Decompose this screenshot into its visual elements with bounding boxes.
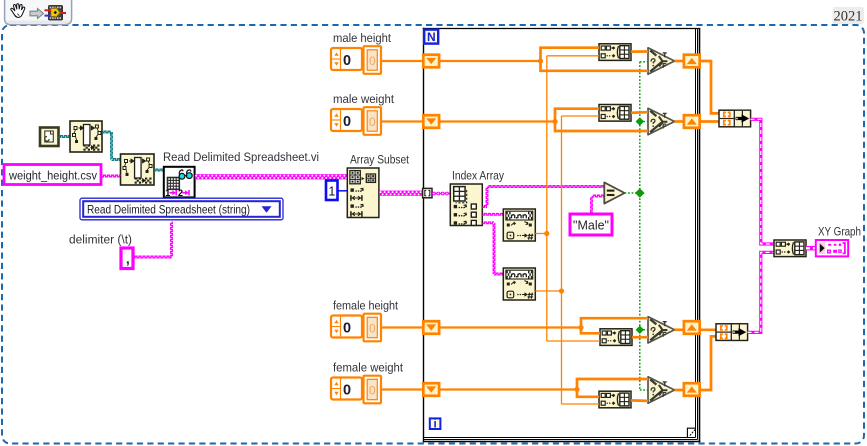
wire Build Array male height to Select true input xyxy=(631,50,648,53)
wire Select male weight output to right shift register xyxy=(675,120,685,123)
wire female weight shift register to junction xyxy=(439,388,577,390)
wire Male constant to equals node xyxy=(591,196,593,214)
wire constant 1 to Array Subset xyxy=(338,190,348,192)
string constant Male xyxy=(570,214,612,235)
boolean junction diamond at select female height xyxy=(636,326,644,334)
wire path node 1 to path node 2 xyxy=(102,131,112,133)
svg-text:"Male": "Male" xyxy=(573,219,609,233)
wire string-to-number 1 output to height distribution xyxy=(535,233,547,235)
wire csv name to path node 2 xyxy=(102,175,121,177)
svg-text:0: 0 xyxy=(369,383,376,397)
wire Build Array female weight to Select false input xyxy=(631,399,648,402)
numeric control male height terminal frame xyxy=(364,46,382,74)
boolean junction diamond at equals output xyxy=(635,188,645,198)
wire female weight array to Build Array input xyxy=(577,390,599,397)
toolbar step arrow icon xyxy=(30,9,44,19)
1D string array wire tunnel to Index Array xyxy=(432,193,451,195)
wire male weight shift register to junction xyxy=(439,120,555,122)
LabVIEW version tag 2021 xyxy=(833,7,865,24)
svg-text:i: i xyxy=(433,419,436,431)
string wire Index Array row 1 to string-to-number 1 xyxy=(482,214,503,216)
numeric control female height terminal frame xyxy=(364,314,382,342)
VI reference constant icon xyxy=(40,128,59,147)
auto-indexing tunnel on loop border xyxy=(423,188,432,197)
wire female weight control to left shift register xyxy=(381,388,423,390)
XY Graph indicator terminal xyxy=(816,240,848,256)
for loop left border xyxy=(423,28,425,443)
right shift register terminal (male weight) xyxy=(684,115,700,128)
left shift register terminal (male height) xyxy=(423,55,439,68)
string constant delimiter comma xyxy=(121,248,133,269)
2D string array wire Array Subset to loop tunnel xyxy=(379,191,423,196)
string wire Index Array row 2 to string-to-number 2 xyxy=(482,222,494,224)
height scalar vertical distribution wire xyxy=(546,56,548,341)
Select node (male height) xyxy=(648,48,675,74)
svg-text:male height: male height xyxy=(333,31,392,45)
boolean junction diamond at select male weight xyxy=(636,117,644,125)
plot array wire to XY Graph terminal xyxy=(806,246,816,250)
boolean stub to select female height xyxy=(640,329,650,331)
wire Build Array male weight to Select true input xyxy=(631,111,648,114)
path node 2 (build path) xyxy=(121,154,155,185)
wire male weight array to Build Array input xyxy=(555,109,599,122)
wire delimiter to spreadsheet VI xyxy=(133,256,172,258)
svg-text:0: 0 xyxy=(343,383,351,399)
string wire Index Array row 0 to equals node xyxy=(482,206,487,208)
wire weight scalar to Build Array male xyxy=(562,115,600,117)
svg-text:Array Subset: Array Subset xyxy=(350,153,409,167)
svg-text:2021: 2021 xyxy=(834,9,863,25)
wire Select male height output to right shift register xyxy=(675,60,685,63)
for loop resize corner fold xyxy=(688,429,695,437)
wire female weight result to Bundle xyxy=(700,336,716,390)
toolbar VI film icon xyxy=(49,6,63,21)
svg-text:Read Delimited Spreadsheet.vi: Read Delimited Spreadsheet.vi xyxy=(163,150,319,164)
wire female height result to Bundle xyxy=(700,328,716,331)
wire path node 2 to Read Delimited Spreadsheet.vi xyxy=(154,169,164,171)
Build Array node (XY plots) xyxy=(774,240,806,257)
wire Select female weight output to right shift register xyxy=(675,389,685,392)
numeric control female height icon terminal xyxy=(331,316,362,338)
svg-text:delimiter (\t): delimiter (\t) xyxy=(69,233,132,247)
path node 1 (strip path) xyxy=(70,121,102,152)
wire female weight pass-through to Select true input xyxy=(577,379,648,390)
svg-text:weight_height.csv: weight_height.csv xyxy=(8,169,98,183)
2D string array wire spreadsheet VI to Array Subset xyxy=(195,174,348,179)
wire female height array to Build Array input xyxy=(581,328,600,334)
svg-text:0: 0 xyxy=(369,54,376,68)
boolean stub to select male weight xyxy=(640,121,650,123)
string constant weight_height.csv xyxy=(4,165,101,185)
right shift register terminal (female weight) xyxy=(684,383,700,396)
wire male height pass-through to Select false input xyxy=(541,61,649,71)
wire female height shift register to junction xyxy=(439,326,581,328)
svg-text:0: 0 xyxy=(343,114,351,130)
numeric control female weight terminal frame xyxy=(364,376,382,404)
junction dot female height xyxy=(578,325,583,330)
Build Array node (female height) xyxy=(600,329,632,346)
for loop iteration terminal i xyxy=(430,418,441,429)
Array Subset node xyxy=(347,168,379,218)
toolbar hand tool icon xyxy=(11,4,25,18)
wire weight scalar to Build Array female xyxy=(562,403,600,405)
Build Array node (male height) xyxy=(599,44,631,61)
numeric control male weight icon terminal xyxy=(331,109,362,131)
numeric constant 1 (column index) xyxy=(326,181,338,201)
Bundle node (male) xyxy=(719,110,751,127)
Fract/Exp String To Number node 1 (height) xyxy=(503,209,535,241)
wire male height array to Build Array input xyxy=(541,48,600,61)
svg-text:1: 1 xyxy=(328,185,335,199)
svg-text:female height: female height xyxy=(333,299,399,313)
numeric control female weight icon terminal xyxy=(331,378,362,400)
for loop right border (stacked lines) xyxy=(695,29,697,438)
for loop bottom border (stacked lines) xyxy=(424,437,696,439)
wire male height control to left shift register xyxy=(381,60,423,62)
svg-text:,: , xyxy=(126,251,130,267)
boolean stub to select female weight xyxy=(640,389,650,391)
svg-text:N: N xyxy=(427,30,436,44)
svg-text:Read Delimited Spreadsheet (st: Read Delimited Spreadsheet (string) xyxy=(87,203,250,217)
wire height scalar to Build Array male xyxy=(547,55,599,57)
cluster wire Bundle female to Build Array XY xyxy=(748,252,775,332)
Select node (female height) xyxy=(648,317,675,343)
wire path constant to path node 1 xyxy=(59,136,71,138)
toolbar panel xyxy=(5,0,72,25)
boolean wire equals to distribution xyxy=(625,192,640,194)
wire female height pass-through to Select true input xyxy=(581,318,648,327)
wire Select female height output to right shift register xyxy=(675,328,685,331)
wire male height shift register to junction xyxy=(439,60,541,62)
svg-text:0: 0 xyxy=(369,321,376,335)
svg-text:0: 0 xyxy=(343,321,351,337)
weight scalar vertical distribution wire xyxy=(561,116,563,404)
wire male height result to Bundle xyxy=(700,61,719,113)
Build Array node (female weight) xyxy=(599,391,631,408)
wire string-to-number 2 output to weight distribution xyxy=(535,290,561,292)
Fract/Exp String To Number node 2 (weight) xyxy=(503,268,535,300)
svg-text:0: 0 xyxy=(343,53,351,69)
junction dot male height xyxy=(538,58,543,63)
svg-text:XY Graph: XY Graph xyxy=(818,225,861,239)
wire male weight control to left shift register xyxy=(381,120,423,122)
junction dot weight wire xyxy=(559,288,564,293)
cluster wire Bundle male to Build Array XY xyxy=(751,119,775,244)
junction dot height wire xyxy=(544,231,549,236)
Read Delimited Spreadsheet.vi node xyxy=(164,167,195,198)
svg-text:male weight: male weight xyxy=(333,92,395,106)
left shift register terminal (female weight) xyxy=(423,383,439,396)
wire height scalar to Build Array female xyxy=(547,340,600,342)
left shift register terminal (male weight) xyxy=(423,115,439,128)
svg-text:2: 2 xyxy=(178,188,183,198)
numeric control male weight terminal frame xyxy=(364,107,382,135)
svg-text:Index Array: Index Array xyxy=(452,169,505,183)
svg-text:0: 0 xyxy=(369,115,376,129)
glasses on spreadsheet VI icon xyxy=(179,173,185,179)
wire Build Array female height to Select false input xyxy=(632,336,648,339)
polymorphic VI selector dropdown xyxy=(80,198,283,220)
Index Array node xyxy=(450,184,482,226)
junction dot male weight xyxy=(552,119,557,124)
boolean vertical distribution wire xyxy=(639,62,641,390)
numeric control male height icon terminal xyxy=(331,48,362,70)
right shift register terminal (female height) xyxy=(684,321,700,334)
for loop count terminal N xyxy=(424,30,438,44)
for loop top border xyxy=(423,28,701,30)
Build Array node (male weight) xyxy=(599,105,631,122)
junction dot female weight xyxy=(574,387,579,392)
wire male weight pass-through to Select false input xyxy=(555,122,648,132)
svg-text:female weight: female weight xyxy=(333,361,404,375)
Select node (male weight) xyxy=(648,108,675,134)
Select node (female weight) xyxy=(648,377,675,403)
right shift register terminal (male height) xyxy=(684,55,700,68)
wire male weight result to Bundle xyxy=(700,120,719,123)
Bundle node (female) xyxy=(716,324,748,341)
boolean stub to select male height xyxy=(640,61,650,63)
left shift register terminal (female height) xyxy=(423,321,439,334)
equals comparison node xyxy=(604,182,624,203)
wire female height control to left shift register xyxy=(381,326,423,328)
